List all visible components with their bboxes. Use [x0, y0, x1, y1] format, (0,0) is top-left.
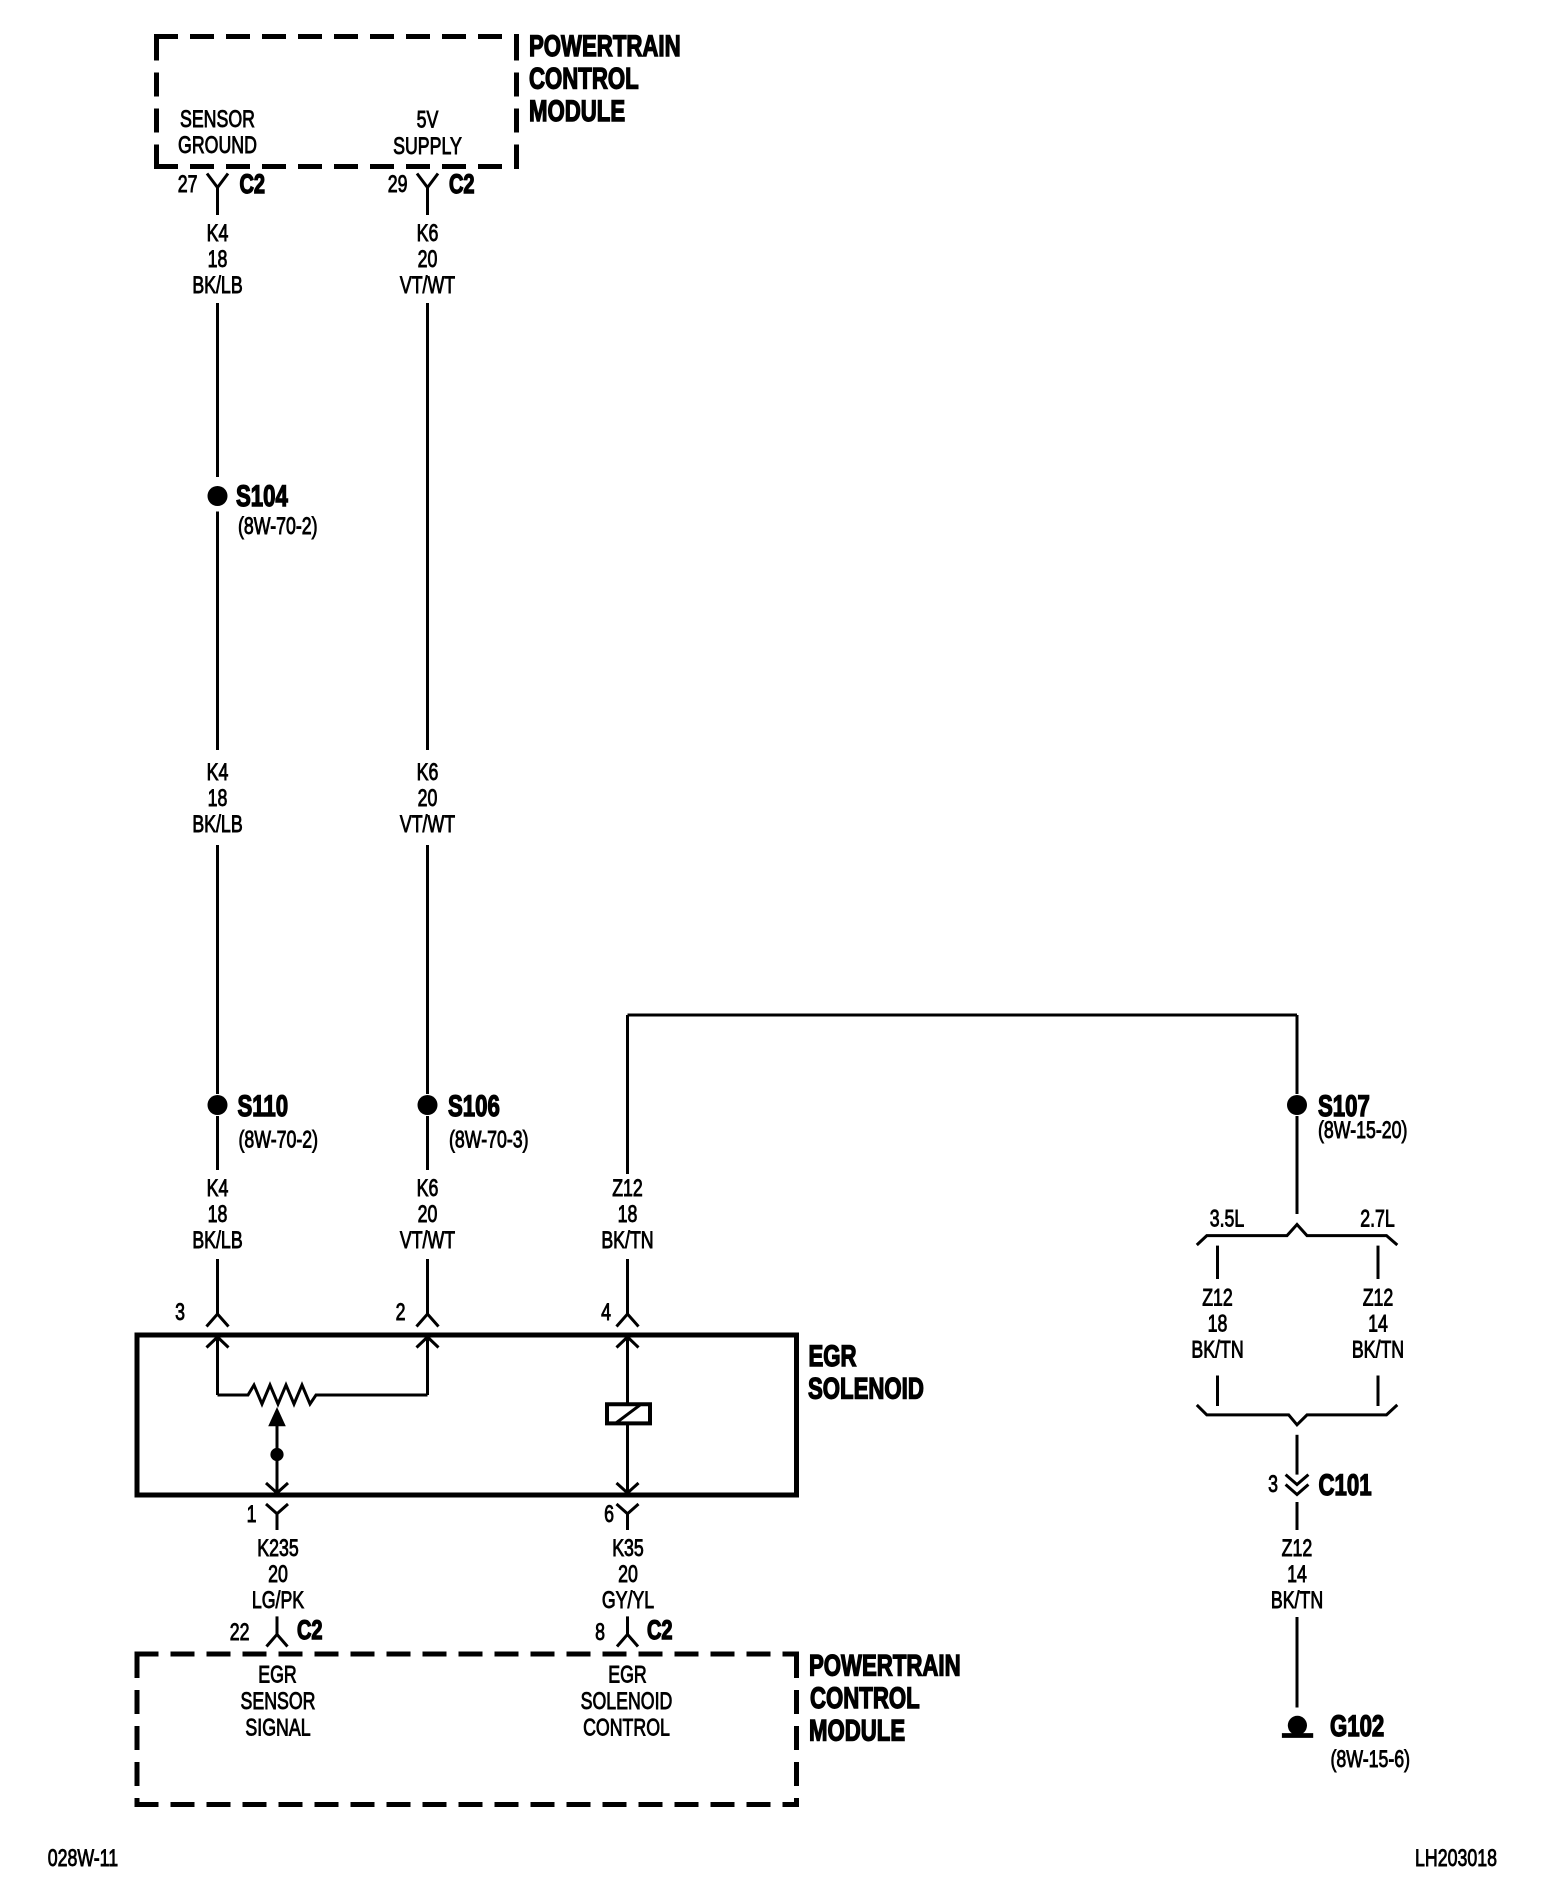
- svg-text:Z12: Z12: [1282, 1536, 1313, 1562]
- svg-text:K6: K6: [417, 1176, 439, 1202]
- svg-text:14: 14: [1368, 1311, 1388, 1337]
- svg-text:2.7L: 2.7L: [1360, 1206, 1395, 1232]
- svg-text:LG/PK: LG/PK: [252, 1588, 304, 1614]
- svg-text:3: 3: [1268, 1472, 1278, 1498]
- svg-text:BK/LB: BK/LB: [192, 812, 242, 838]
- svg-text:GY/YL: GY/YL: [602, 1588, 655, 1614]
- svg-text:SENSOR: SENSOR: [241, 1689, 316, 1715]
- svg-text:8: 8: [595, 1620, 605, 1646]
- svg-text:SOLENOID: SOLENOID: [808, 1371, 924, 1405]
- svg-text:20: 20: [268, 1562, 288, 1588]
- svg-text:G102: G102: [1330, 1709, 1384, 1743]
- svg-text:18: 18: [1208, 1311, 1228, 1337]
- svg-text:20: 20: [418, 247, 438, 273]
- svg-text:BK/TN: BK/TN: [1191, 1337, 1243, 1363]
- svg-text:LH203018: LH203018: [1415, 1846, 1497, 1872]
- svg-text:22: 22: [230, 1620, 250, 1646]
- svg-text:3.5L: 3.5L: [1210, 1206, 1245, 1232]
- svg-text:29: 29: [388, 172, 408, 198]
- svg-text:3: 3: [175, 1300, 185, 1326]
- svg-text:BK/TN: BK/TN: [1352, 1337, 1404, 1363]
- svg-text:20: 20: [418, 786, 438, 812]
- svg-text:VT/WT: VT/WT: [400, 273, 455, 299]
- svg-text:BK/TN: BK/TN: [1271, 1588, 1323, 1614]
- svg-text:1: 1: [247, 1502, 257, 1528]
- svg-text:EGR: EGR: [258, 1662, 296, 1688]
- svg-text:18: 18: [208, 247, 228, 273]
- svg-text:C101: C101: [1319, 1468, 1372, 1502]
- svg-text:5V: 5V: [417, 107, 439, 133]
- svg-text:MODULE: MODULE: [809, 1713, 905, 1747]
- svg-text:(8W-70-3): (8W-70-3): [449, 1127, 529, 1153]
- svg-text:SUPPLY: SUPPLY: [393, 134, 462, 160]
- svg-text:GROUND: GROUND: [178, 133, 257, 159]
- svg-text:SIGNAL: SIGNAL: [245, 1715, 310, 1741]
- svg-text:K35: K35: [612, 1536, 644, 1562]
- svg-text:028W-11: 028W-11: [48, 1846, 118, 1872]
- svg-text:BK/LB: BK/LB: [192, 1228, 242, 1254]
- svg-text:Z12: Z12: [612, 1176, 643, 1202]
- svg-text:18: 18: [208, 786, 228, 812]
- svg-text:Z12: Z12: [1363, 1285, 1394, 1311]
- svg-text:18: 18: [208, 1202, 228, 1228]
- svg-text:VT/WT: VT/WT: [400, 812, 455, 838]
- svg-text:C2: C2: [297, 1615, 323, 1646]
- svg-text:(8W-15-20): (8W-15-20): [1318, 1118, 1407, 1144]
- svg-text:S104: S104: [236, 479, 288, 513]
- svg-text:C2: C2: [449, 169, 475, 200]
- svg-text:C2: C2: [647, 1615, 673, 1646]
- svg-text:K4: K4: [207, 760, 229, 786]
- svg-text:K6: K6: [417, 221, 439, 247]
- svg-text:CONTROL: CONTROL: [529, 61, 639, 95]
- svg-text:2: 2: [396, 1300, 406, 1326]
- svg-text:20: 20: [618, 1562, 638, 1588]
- svg-text:SENSOR: SENSOR: [180, 107, 255, 133]
- svg-text:C2: C2: [240, 169, 266, 200]
- svg-text:14: 14: [1287, 1562, 1307, 1588]
- svg-text:K4: K4: [207, 221, 229, 247]
- svg-text:POWERTRAIN: POWERTRAIN: [529, 29, 681, 63]
- svg-text:CONTROL: CONTROL: [810, 1681, 920, 1715]
- svg-text:6: 6: [604, 1502, 614, 1528]
- svg-text:(8W-70-2): (8W-70-2): [239, 1127, 319, 1153]
- svg-text:20: 20: [418, 1202, 438, 1228]
- svg-text:(8W-70-2): (8W-70-2): [238, 514, 318, 540]
- svg-text:BK/LB: BK/LB: [192, 273, 242, 299]
- svg-text:(8W-15-6): (8W-15-6): [1330, 1747, 1410, 1773]
- svg-text:SOLENOID: SOLENOID: [581, 1689, 673, 1715]
- svg-text:MODULE: MODULE: [529, 94, 625, 128]
- svg-text:S106: S106: [448, 1089, 500, 1123]
- svg-text:POWERTRAIN: POWERTRAIN: [809, 1648, 961, 1682]
- svg-text:EGR: EGR: [608, 1662, 646, 1688]
- svg-text:VT/WT: VT/WT: [400, 1228, 455, 1254]
- svg-text:BK/TN: BK/TN: [601, 1228, 653, 1254]
- svg-text:K235: K235: [257, 1536, 298, 1562]
- svg-text:27: 27: [178, 172, 198, 198]
- svg-text:CONTROL: CONTROL: [583, 1715, 670, 1741]
- svg-text:S110: S110: [238, 1089, 289, 1123]
- svg-text:Z12: Z12: [1202, 1285, 1233, 1311]
- svg-text:18: 18: [618, 1202, 638, 1228]
- svg-text:K4: K4: [207, 1176, 229, 1202]
- svg-text:EGR: EGR: [809, 1339, 857, 1373]
- svg-text:K6: K6: [417, 760, 439, 786]
- svg-text:4: 4: [601, 1300, 611, 1326]
